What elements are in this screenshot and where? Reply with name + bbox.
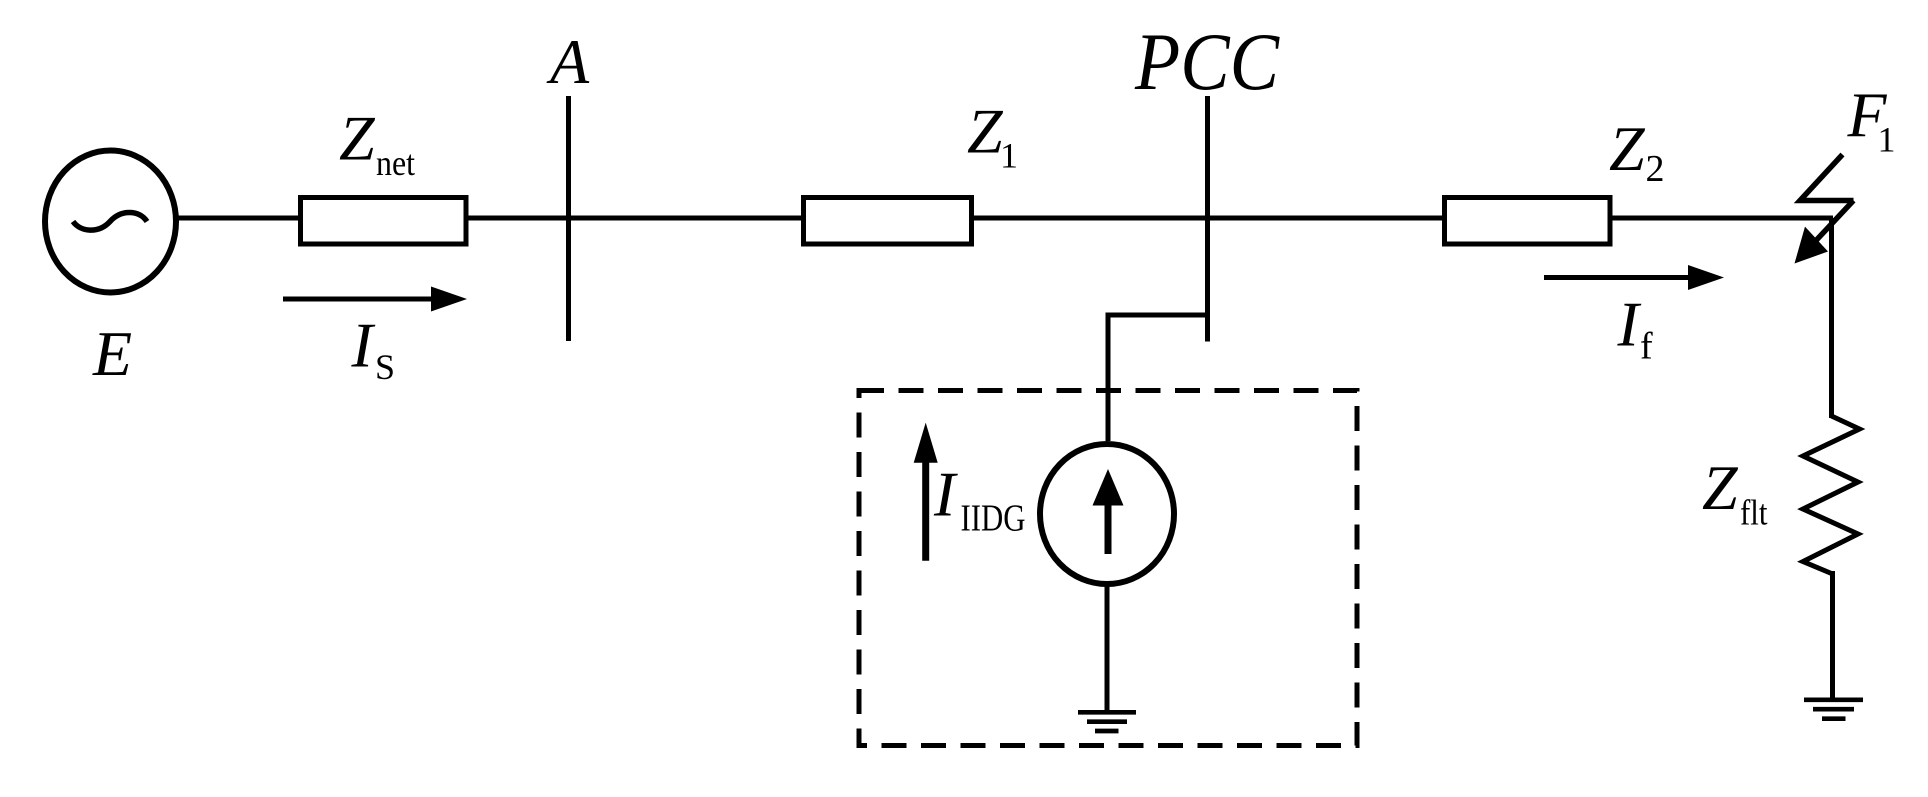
- IIDG enclosure (dashed box): [859, 391, 1357, 746]
- svg-text:1: 1: [1000, 136, 1018, 176]
- resistor Zflt: [1803, 416, 1860, 574]
- AC source E: [45, 151, 176, 293]
- svg-text:Z: Z: [1609, 113, 1646, 184]
- svg-text:Z: Z: [1702, 452, 1739, 523]
- svg-text:Z: Z: [339, 103, 376, 174]
- svg-text:net: net: [376, 143, 415, 183]
- svg-text:I: I: [933, 459, 958, 530]
- resistor Z2: [1445, 198, 1611, 245]
- resistor Z1: [804, 198, 972, 245]
- arrow Is: [283, 287, 467, 312]
- svg-text:I: I: [351, 310, 376, 381]
- arrow IIDG current direction: [914, 423, 938, 561]
- ground (IIDG): [1078, 712, 1136, 731]
- current source IIDG: [1040, 444, 1174, 584]
- svg-text:A: A: [546, 26, 590, 97]
- svg-text:IIDG: IIDG: [961, 498, 1026, 540]
- svg-text:E: E: [92, 318, 132, 389]
- svg-text:Z: Z: [967, 96, 1004, 167]
- svg-text:flt: flt: [1740, 493, 1768, 533]
- svg-text:S: S: [375, 347, 395, 387]
- wire Z2 to fault F1: [1610, 216, 1833, 221]
- ground (fault branch): [1804, 700, 1863, 719]
- fault F1 symbol: [1795, 155, 1854, 264]
- svg-text:I: I: [1617, 289, 1642, 360]
- wire source to Znet: [176, 216, 301, 221]
- svg-text:2: 2: [1646, 148, 1665, 190]
- bus A: [566, 96, 571, 341]
- wire Znet to Z1: [466, 216, 803, 221]
- wire source to ground: [1105, 584, 1110, 711]
- svg-text:f: f: [1640, 326, 1653, 368]
- wire Zflt to ground: [1830, 571, 1835, 699]
- svg-text:PCC: PCC: [1134, 16, 1280, 107]
- bus PCC: [1205, 96, 1210, 342]
- resistor Znet: [301, 198, 467, 245]
- arrow If: [1544, 265, 1724, 290]
- svg-text:1: 1: [1878, 120, 1896, 160]
- wire Z1 to Z2: [972, 216, 1445, 221]
- wire PCC to IIDG branch: [1108, 315, 1208, 441]
- wire F1 to Zflt: [1829, 218, 1834, 418]
